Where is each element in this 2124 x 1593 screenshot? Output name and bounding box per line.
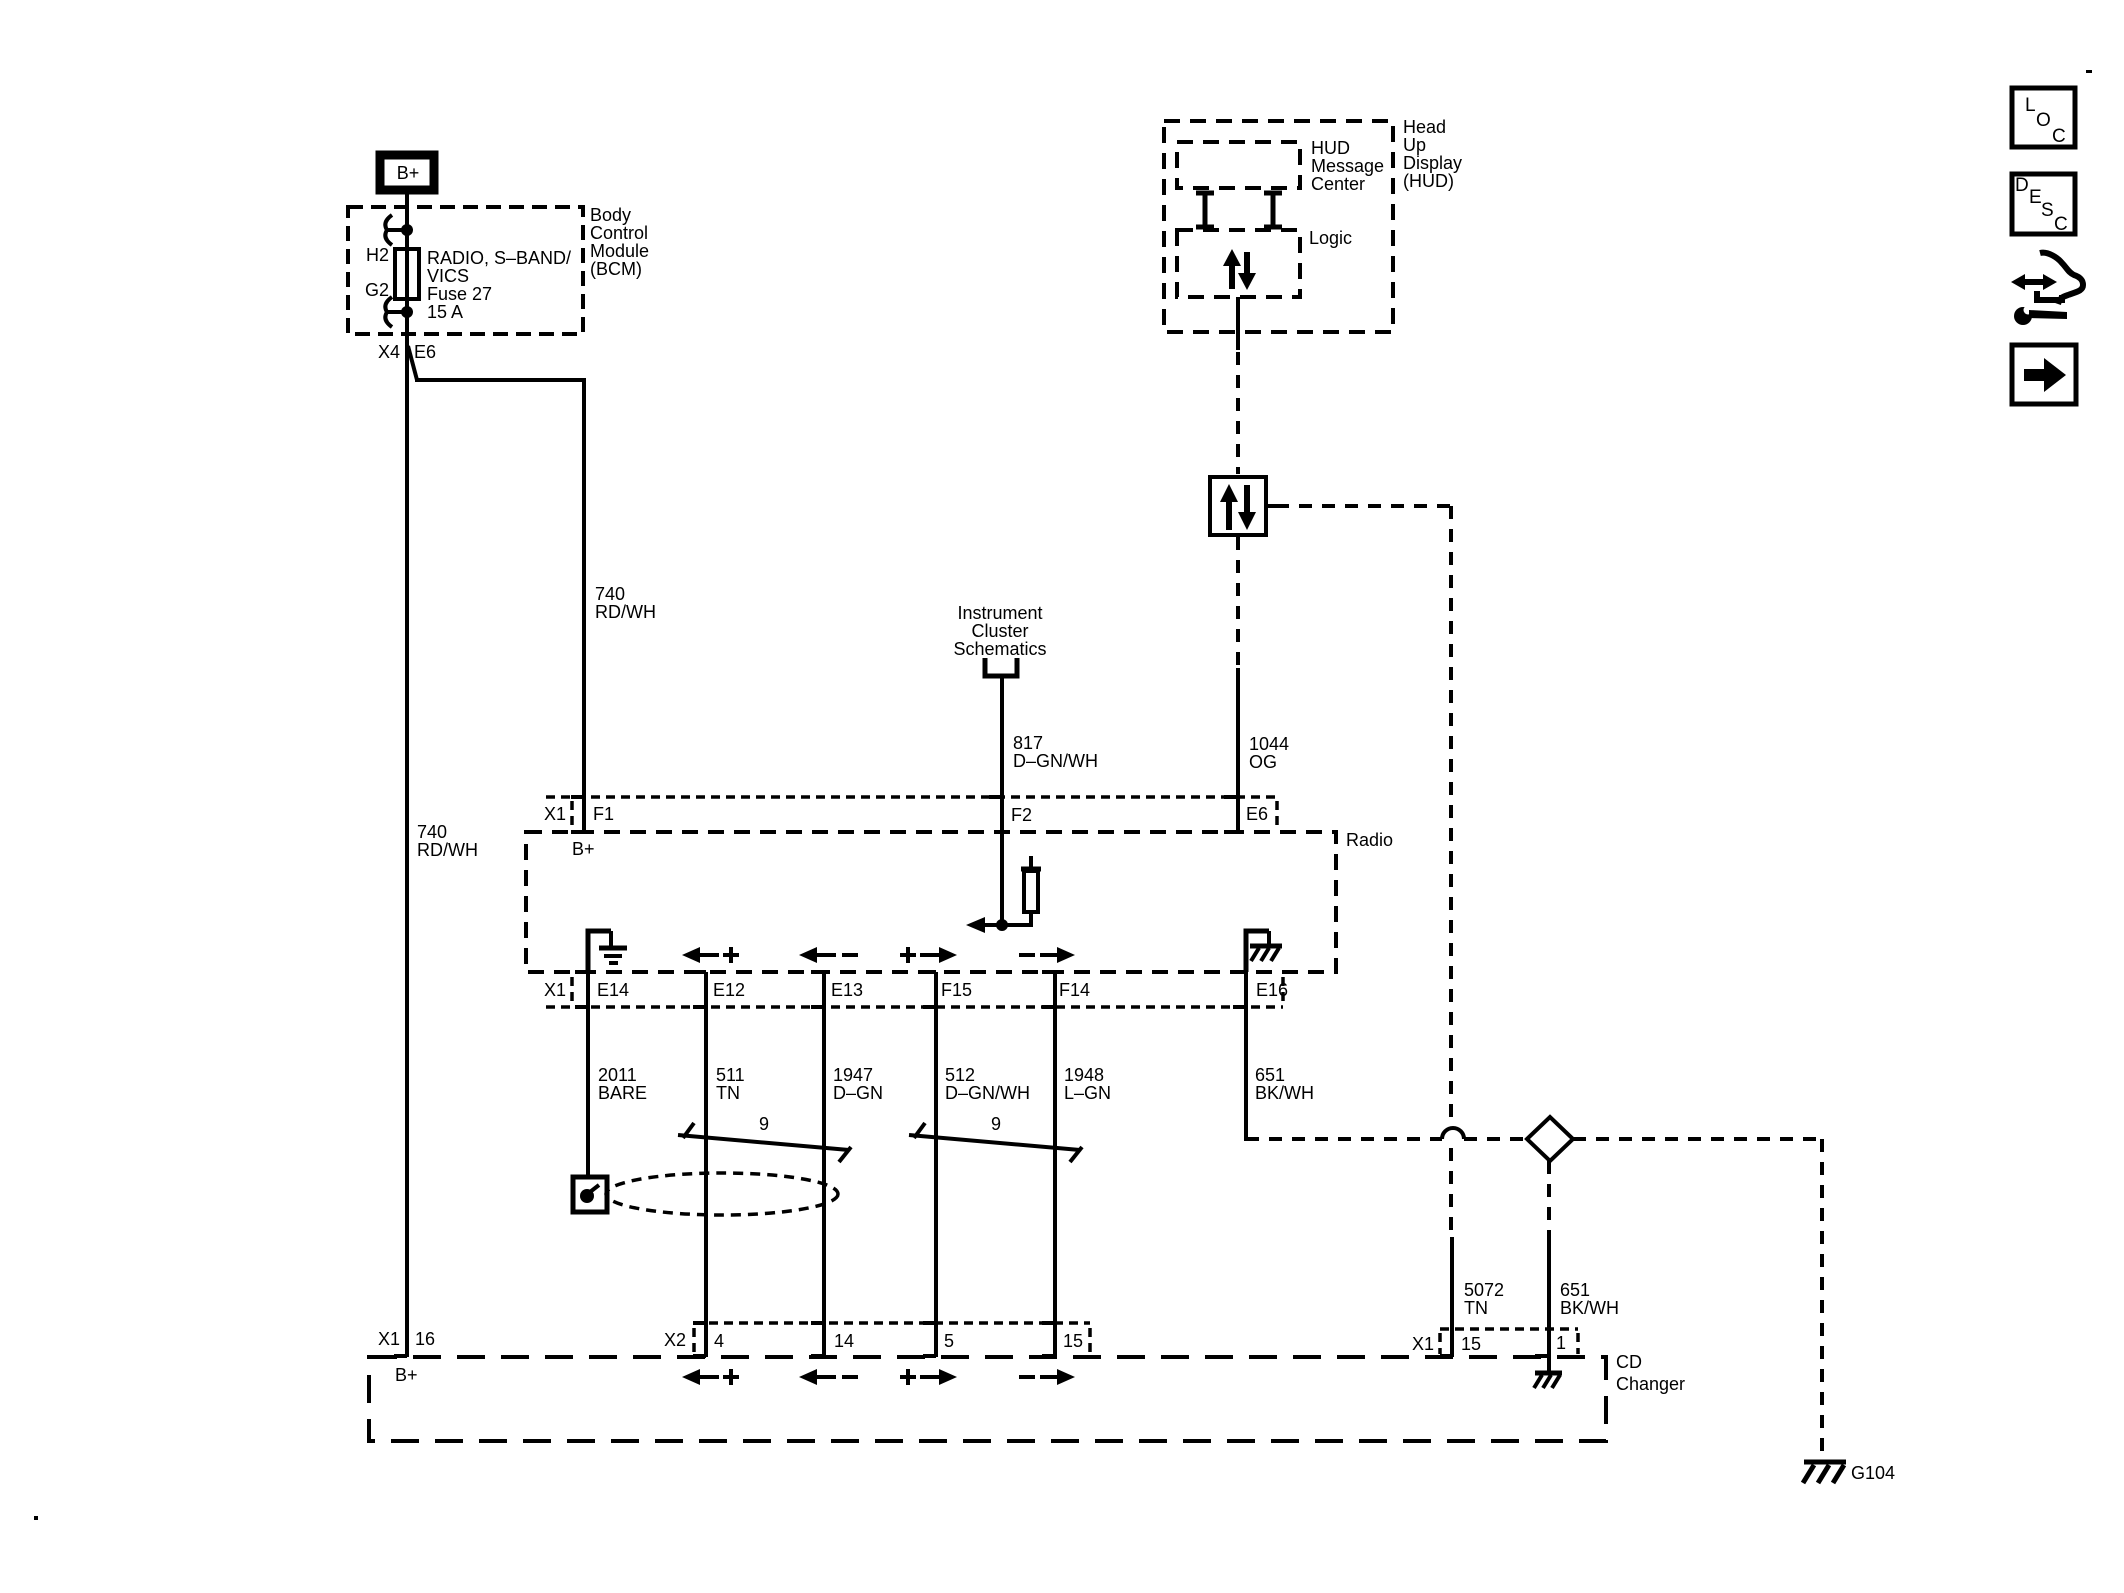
svg-text:OG: OG [1249,752,1277,772]
radio X1 bottom tick left [570,977,574,1003]
wire 511 TN [704,972,708,1357]
HUD Message Center dashed box [1177,142,1300,188]
svg-text:4: 4 [714,1331,724,1351]
HUD label [1403,117,1462,191]
svg-text:X4: X4 [378,342,400,362]
svg-text:F14: F14 [1059,980,1090,1000]
svg-text:L–GN: L–GN [1064,1083,1111,1103]
radio E14 internal earth ground [588,931,627,972]
ground G104 chassis symbol [1803,1462,1846,1483]
svg-text:Message: Message [1311,156,1384,176]
svg-text:Schematics: Schematics [953,639,1046,659]
CD X1 connector dotted line [1440,1327,1578,1331]
svg-text:Radio: Radio [1346,830,1393,850]
Body Control Module (BCM) dashed box [348,207,583,334]
BCM label [590,205,649,279]
svg-text:1948: 1948 [1064,1065,1104,1085]
label 817 D-GN/WH [1013,733,1098,771]
X2 tick left [692,1328,696,1353]
svg-text:X1: X1 [544,980,566,1000]
radio arrow left-plus [682,947,739,963]
svg-text:G2: G2 [365,280,389,300]
svg-text:C: C [2054,214,2068,235]
svg-text:16: 16 [415,1329,435,1349]
logic down arrow [1238,252,1256,290]
svg-text:G104: G104 [1851,1463,1895,1483]
svg-text:F15: F15 [941,980,972,1000]
svg-text:15: 15 [1461,1334,1481,1354]
wire dashed hop-line down to 5072 [1449,1148,1453,1237]
svg-text:2011: 2011 [598,1065,637,1085]
icon LOC box [2012,88,2075,147]
svg-text:9: 9 [759,1114,769,1134]
svg-text:B+: B+ [572,839,595,859]
wire clip-to-fuse stub [386,228,407,232]
pin ticks at X2 dotted row [693,1321,1055,1325]
off-page bracket symbol [985,658,1017,676]
node junction dot bottom [401,306,413,318]
svg-text:E12: E12 [713,980,745,1000]
logic up arrow [1223,249,1241,289]
svg-text:5072: 5072 [1464,1280,1504,1300]
svg-text:1: 1 [1556,1333,1566,1353]
svg-text:D–GN/WH: D–GN/WH [1013,751,1098,771]
node junction F2/resistor [996,919,1008,931]
pin ticks at radio bottom edge [575,970,1246,974]
svg-text:Center: Center [1311,174,1365,194]
svg-text:O: O [2036,110,2051,131]
shield termination box [573,1177,607,1212]
svg-text:TN: TN [716,1083,740,1103]
wire branch diagonal at X4/E6 [408,346,417,380]
svg-text:X1: X1 [544,804,566,824]
label 740 RD/WH (left trunk) [417,822,478,860]
inline connector box with arrows [1210,477,1276,535]
svg-text:5: 5 [944,1331,954,1351]
svg-text:E13: E13 [831,980,863,1000]
CD Changer dashed box [369,1357,1606,1441]
label 511 TN [716,1065,745,1103]
svg-text:BARE: BARE [598,1083,647,1103]
svg-text:Body: Body [590,205,631,225]
svg-text:X2: X2 [664,1330,686,1350]
CD arrow plus-right [900,1369,957,1385]
connector clip H2 [385,215,392,245]
wire 1947 D-GN [822,972,826,1357]
CD arrow left-plus [682,1369,739,1385]
icon jump-to wrench symbol [2011,253,2083,325]
pin tick F1 at row [571,795,584,799]
radio X1 top connector right tick [1275,801,1279,826]
wire dashed diamond down [1547,1161,1551,1240]
pin tick E6 at row [1224,795,1237,799]
label 651 BK/WH (CD drop) [1560,1280,1619,1318]
svg-text:F1: F1 [593,804,614,824]
fuse 27 body [395,249,419,299]
wire 1044 OG solid to radio E6 [1236,668,1240,833]
svg-text:X1: X1 [378,1329,400,1349]
radio X1 bottom connector dotted line [546,1005,1283,1009]
CD X1 tick right [1576,1333,1580,1354]
label 1947 D-GN [833,1065,883,1103]
icon next-arrow box [2012,345,2076,404]
icon DESC box [2012,174,2075,235]
svg-text:BK/WH: BK/WH [1255,1083,1314,1103]
radio arrow left-minus [799,947,858,963]
svg-text:E: E [2029,187,2042,208]
CD arrow minus-right [1019,1369,1075,1385]
pin tick F2 at row [989,795,1002,799]
svg-text:E6: E6 [414,342,436,362]
Logic dashed box [1177,230,1300,297]
wire HUD logic to box bottom (solid) [1236,297,1240,350]
wire 651 BK/WH to CD pin 1 [1547,1240,1551,1357]
display element symbol right post [1264,193,1282,228]
svg-text:740: 740 [595,584,625,604]
wire 817 from cluster to radio F2 [1000,678,1004,925]
CD X1 tick left [1438,1333,1442,1354]
label 2011 BARE [598,1065,647,1103]
svg-text:E16: E16 [1256,980,1288,1000]
svg-text:Cluster: Cluster [971,621,1028,641]
svg-text:Head: Head [1403,117,1446,137]
power feed B+ box [380,155,434,190]
svg-text:E6: E6 [1246,804,1268,824]
svg-text:651: 651 [1560,1280,1590,1300]
svg-text:(HUD): (HUD) [1403,171,1454,191]
wire clip-to-fuse stub bottom [386,310,407,314]
wire B+ feed vertical (740 circuit trunk) [405,190,409,1357]
radio E16 internal chassis ground [1246,931,1282,972]
svg-text:B+: B+ [395,1365,418,1385]
svg-text:H2: H2 [366,245,389,265]
svg-text:D–GN/WH: D–GN/WH [945,1083,1030,1103]
svg-text:VICS: VICS [427,266,469,286]
label 1948 L-GN [1064,1065,1111,1103]
svg-text:RD/WH: RD/WH [595,602,656,622]
wire 651 BK/WH from E16 [1244,972,1248,1141]
radio internal resistor sensor [1002,856,1041,925]
svg-text:Display: Display [1403,153,1462,173]
wire dashed right vertical down to hop [1449,506,1453,1119]
svg-text:E14: E14 [597,980,629,1000]
svg-text:L: L [2025,95,2036,116]
svg-text:RD/WH: RD/WH [417,840,478,860]
label 512 D-GN/WH [945,1065,1030,1103]
wire 740 RD/WH branch to radio F1 [415,380,584,833]
wire dashed from connector to right vertical [1276,504,1451,508]
pin tick F1 at radio edge [571,830,584,834]
svg-text:CD: CD [1616,1352,1642,1372]
wire 651 net horizontal dashed with hop [1246,1137,1822,1141]
label 740 RD/WH (right branch) [595,584,656,622]
label 5072 TN [1464,1280,1504,1318]
connector clip G2 [385,297,392,327]
svg-text:511: 511 [716,1065,745,1085]
stray mark bottom left [34,1516,38,1520]
svg-text:Changer: Changer [1616,1374,1685,1394]
svg-text:F2: F2 [1011,805,1032,825]
radio X1 bottom tick right [1281,977,1285,1003]
radio X1 top connector tick [570,801,574,826]
pin ticks at CD top edge [394,1354,1548,1358]
wire 512 D-GN/WH [934,972,938,1357]
twisted pair mark 512/1948 [909,1123,1082,1162]
svg-text:1044: 1044 [1249,734,1289,754]
svg-text:651: 651 [1255,1065,1285,1085]
CD arrow left-minus [799,1369,858,1385]
svg-text:1947: 1947 [833,1065,873,1085]
radio arrow plus-right [900,947,957,963]
wire HUD dashed down to connector [1236,352,1240,474]
shield ellipse around pair [606,1173,838,1215]
wire 2011 BARE drain [586,972,590,1177]
svg-text:14: 14 [834,1331,854,1351]
CD changer X2 connector dotted line [694,1321,1090,1325]
wire dashed right drop to G104 [1820,1139,1824,1459]
radio X1 top connector dotted line [546,795,1277,799]
Instrument Cluster Schematics label [953,603,1046,659]
wire 1948 L-GN [1053,972,1057,1357]
pin ticks at radio bottom dotted row [575,1005,1246,1009]
svg-text:D: D [2015,175,2029,196]
svg-text:Control: Control [590,223,648,243]
fuse value label [427,248,571,322]
radio arrow minus-right [1019,947,1075,963]
twisted pair mark 511/1947 [678,1123,851,1162]
splice diamond S-connector [1527,1117,1573,1161]
radio internal arrow into junction [966,917,1002,933]
wire hop over 5072 [1442,1128,1464,1139]
Head Up Display (HUD) outer dashed box [1164,121,1393,332]
CD internal chassis ground at pin 1 [1534,1357,1562,1388]
X2 tick right [1088,1328,1092,1353]
svg-text:(BCM): (BCM) [590,259,642,279]
svg-text:Fuse 27: Fuse 27 [427,284,492,304]
svg-text:Logic: Logic [1309,228,1352,248]
label 1044 OG [1249,734,1289,772]
svg-text:9: 9 [991,1114,1001,1134]
svg-text:TN: TN [1464,1298,1488,1318]
HUD Message Center label [1311,138,1384,194]
svg-text:RADIO, S–BAND/: RADIO, S–BAND/ [427,248,571,268]
svg-text:15: 15 [1063,1331,1083,1351]
svg-text:C: C [2052,126,2066,147]
svg-text:HUD: HUD [1311,138,1350,158]
Radio dashed box [526,832,1336,972]
svg-text:15 A: 15 A [427,302,463,322]
svg-text:Instrument: Instrument [957,603,1042,623]
svg-text:817: 817 [1013,733,1043,753]
stray mark top right [2086,70,2092,73]
svg-text:D–GN: D–GN [833,1083,883,1103]
svg-text:X1: X1 [1412,1334,1434,1354]
node junction dot top [401,224,413,236]
svg-text:Up: Up [1403,135,1426,155]
svg-text:Module: Module [590,241,649,261]
wire 5072 TN solid [1450,1237,1454,1357]
svg-text:512: 512 [945,1065,975,1085]
wire connector to E6 dashed [1236,537,1240,668]
display element symbol left post [1196,193,1214,228]
CD Changer label [1616,1352,1685,1394]
label 651 BK/WH [1255,1065,1314,1103]
svg-text:BK/WH: BK/WH [1560,1298,1619,1318]
svg-text:S: S [2041,200,2054,221]
svg-text:740: 740 [417,822,447,842]
pin tick E6 at radio edge [1224,830,1238,834]
svg-text:B+: B+ [397,163,420,183]
